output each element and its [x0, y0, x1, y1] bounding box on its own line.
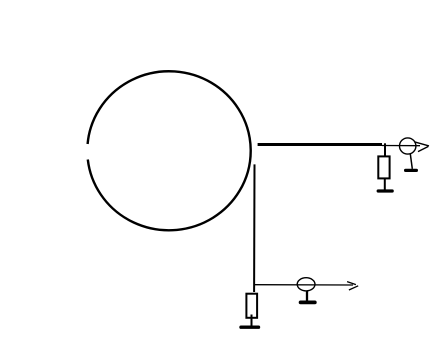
- wire vertical drop line: [253, 164, 255, 292]
- resistor R1: [378, 156, 389, 178]
- wire U1 to ground: [410, 154, 412, 169]
- probe U1: [400, 138, 416, 154]
- ground under R1: [378, 189, 392, 192]
- probe U2: [297, 278, 315, 291]
- wire R1 to ground: [384, 179, 386, 190]
- wire U2 to ground: [306, 291, 308, 301]
- ground under U2: [301, 300, 315, 304]
- wire bottom output line: [255, 284, 354, 286]
- arrow bottom output: [347, 282, 358, 290]
- wire to output probe: [382, 145, 420, 147]
- loop antenna L1: [88, 71, 251, 230]
- wire junction to R1: [384, 143, 386, 156]
- probe U1 arrow: [414, 142, 429, 152]
- wire R2 to ground: [251, 315, 253, 327]
- wire top feed line: [258, 143, 382, 146]
- ground under R2: [241, 326, 259, 329]
- resistor R2: [246, 294, 257, 318]
- ground under U1: [406, 169, 417, 172]
